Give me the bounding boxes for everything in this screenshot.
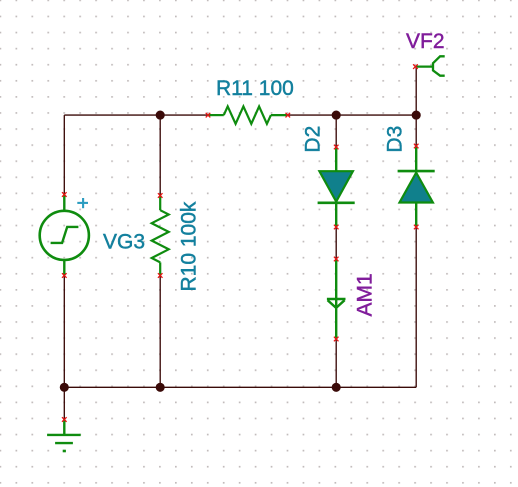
VG3 plus polarity mark — [77, 198, 88, 208]
voltage pin VF2 — [415, 56, 444, 75]
svg-text:VF2: VF2 — [406, 30, 445, 53]
svg-text:D3: D3 — [384, 126, 407, 153]
resistor R10 — [152, 196, 169, 276]
junction node at R10 bottom — [156, 383, 165, 392]
svg-text:R11 100: R11 100 — [216, 77, 294, 100]
junction node at R10 top — [156, 111, 165, 120]
wire: D2 cathode to AM1 — [335, 227, 337, 259]
junction node at AM1 bottom — [332, 383, 341, 392]
wire: left branch vertical from top corner to VG3 — [63, 115, 65, 194]
wire: top horizontal from corner to R11 left terminal — [64, 114, 208, 116]
ammeter AM1 — [327, 259, 346, 339]
wire: ground stub — [63, 387, 65, 419]
junction node at VF2/D3 top — [412, 111, 421, 120]
svg-text:VG3: VG3 — [103, 231, 145, 254]
junction node at ground/bottom left — [60, 383, 69, 392]
voltage generator VG3 — [40, 195, 89, 276]
svg-text:R10 100k: R10 100k — [178, 201, 201, 291]
wire: AM1 to bottom rail — [335, 339, 337, 387]
junction node at D2 top — [332, 111, 341, 120]
terminal x marks — [62, 64, 419, 422]
diode D2 — [318, 147, 355, 227]
wire: top horizontal from R11 right terminal to VF2 node — [288, 114, 416, 116]
wire: bottom rail — [64, 386, 416, 388]
wire: D2 top stub from node — [335, 115, 337, 147]
svg-text:AM1: AM1 — [354, 273, 377, 316]
wire: R10 bottom to bottom rail — [159, 276, 161, 388]
wire: VF2 stem down to top node — [415, 67, 417, 115]
diode D3 — [398, 146, 435, 227]
wire: R10 top stub from node — [159, 115, 161, 195]
svg-text:D2: D2 — [302, 126, 325, 153]
ground — [47, 420, 81, 452]
wire: VG3 bottom to bottom rail — [63, 276, 65, 388]
resistor R11 — [208, 106, 288, 123]
wire: D3 top stub from node — [415, 115, 417, 146]
wire: D3 to bottom rail right side — [415, 227, 417, 387]
